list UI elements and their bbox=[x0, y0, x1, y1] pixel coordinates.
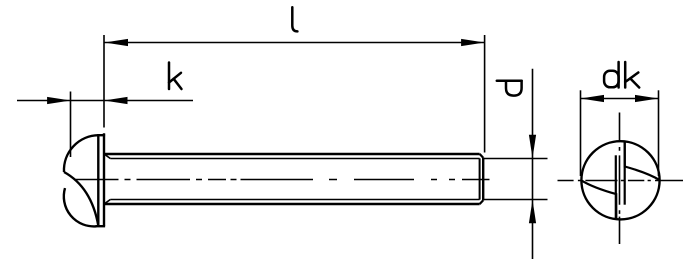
dimension l: left arrowhead bbox=[105, 39, 129, 46]
dimension k: line between extension lines bbox=[71, 100, 104, 102]
dimension d: upper arrowhead (pointing down) bbox=[529, 135, 536, 159]
dimension k: left outside arrow tail bbox=[17, 100, 71, 102]
head front view: outline circle bbox=[581, 141, 659, 219]
shank: tip end face bbox=[482, 158, 484, 201]
shank: tip chamfer edge circle line bbox=[479, 158, 481, 199]
shank: thread root bottom line bbox=[110, 199, 479, 201]
dimension dk: label "d" bbox=[604, 62, 619, 88]
dimension k: left extension line bbox=[70, 92, 72, 158]
head front view: vertical centerline bbox=[619, 113, 621, 245]
screw head: lower dome arc from slot cusp bbox=[64, 188, 97, 226]
dimension dk: right arrowhead (pointing right) bbox=[635, 95, 659, 102]
head front view: right slot edge line bbox=[624, 142, 626, 205]
screw head: dome upper arc bbox=[64, 135, 98, 172]
screw head: bottom cap edge bbox=[96, 225, 106, 227]
dimension d: label "d" rotated 90 bbox=[497, 81, 522, 96]
head front view: lower slot floor arc bbox=[581, 180, 616, 218]
dimension d: vertical dimension line bbox=[532, 69, 534, 259]
dimension l: right arrowhead bbox=[461, 39, 485, 46]
dimension d: top extension line bbox=[484, 158, 548, 160]
head front view: left slot edge line bbox=[615, 155, 617, 219]
shank: tip chamfer bottom diagonal bbox=[480, 200, 484, 204]
dimension dk: left extension line bbox=[580, 90, 582, 176]
screw head: top cap edge bbox=[97, 134, 105, 136]
axis centerline of screw bbox=[74, 179, 490, 181]
screw head: slot back edge S-curve bbox=[64, 172, 98, 226]
dimension k: right arrowhead (pointing left) bbox=[104, 97, 128, 104]
dimension k: right outside arrow tail bbox=[104, 100, 193, 102]
head front view: upper slot floor arc bbox=[625, 142, 660, 180]
dimension dk: left arrowhead (pointing left) bbox=[581, 95, 605, 102]
dimension l: dimension line bbox=[105, 42, 485, 44]
dimension l: left extension line bbox=[103, 35, 105, 128]
shank: top outline (major diameter) bbox=[104, 153, 480, 155]
shank: thread runout lead-in top bbox=[105, 154, 111, 158]
head front view: horizontal centerline bbox=[558, 180, 684, 182]
dimension l: right extension line bbox=[484, 35, 486, 153]
dimension k: label "k" bbox=[169, 63, 182, 90]
dimension l: label "l" bbox=[292, 7, 297, 31]
shank: thread runout lead-in bottom bbox=[105, 200, 111, 204]
shank: thread root top line bbox=[110, 158, 479, 160]
dimension d: bottom extension line bbox=[484, 199, 548, 201]
dimension k: left arrowhead (pointing right) bbox=[47, 97, 71, 104]
shank: bottom outline (major diameter) bbox=[104, 203, 480, 205]
shank: tip chamfer top diagonal bbox=[480, 154, 484, 158]
dimension dk: dimension line bbox=[581, 98, 659, 100]
dimension dk: right extension line bbox=[658, 90, 660, 176]
dimension d: lower arrowhead (pointing up) bbox=[529, 200, 536, 224]
screw head: bearing face line bbox=[103, 133, 105, 226]
dimension dk: label "k" bbox=[625, 62, 639, 88]
screw head: rim front line bbox=[97, 134, 99, 226]
